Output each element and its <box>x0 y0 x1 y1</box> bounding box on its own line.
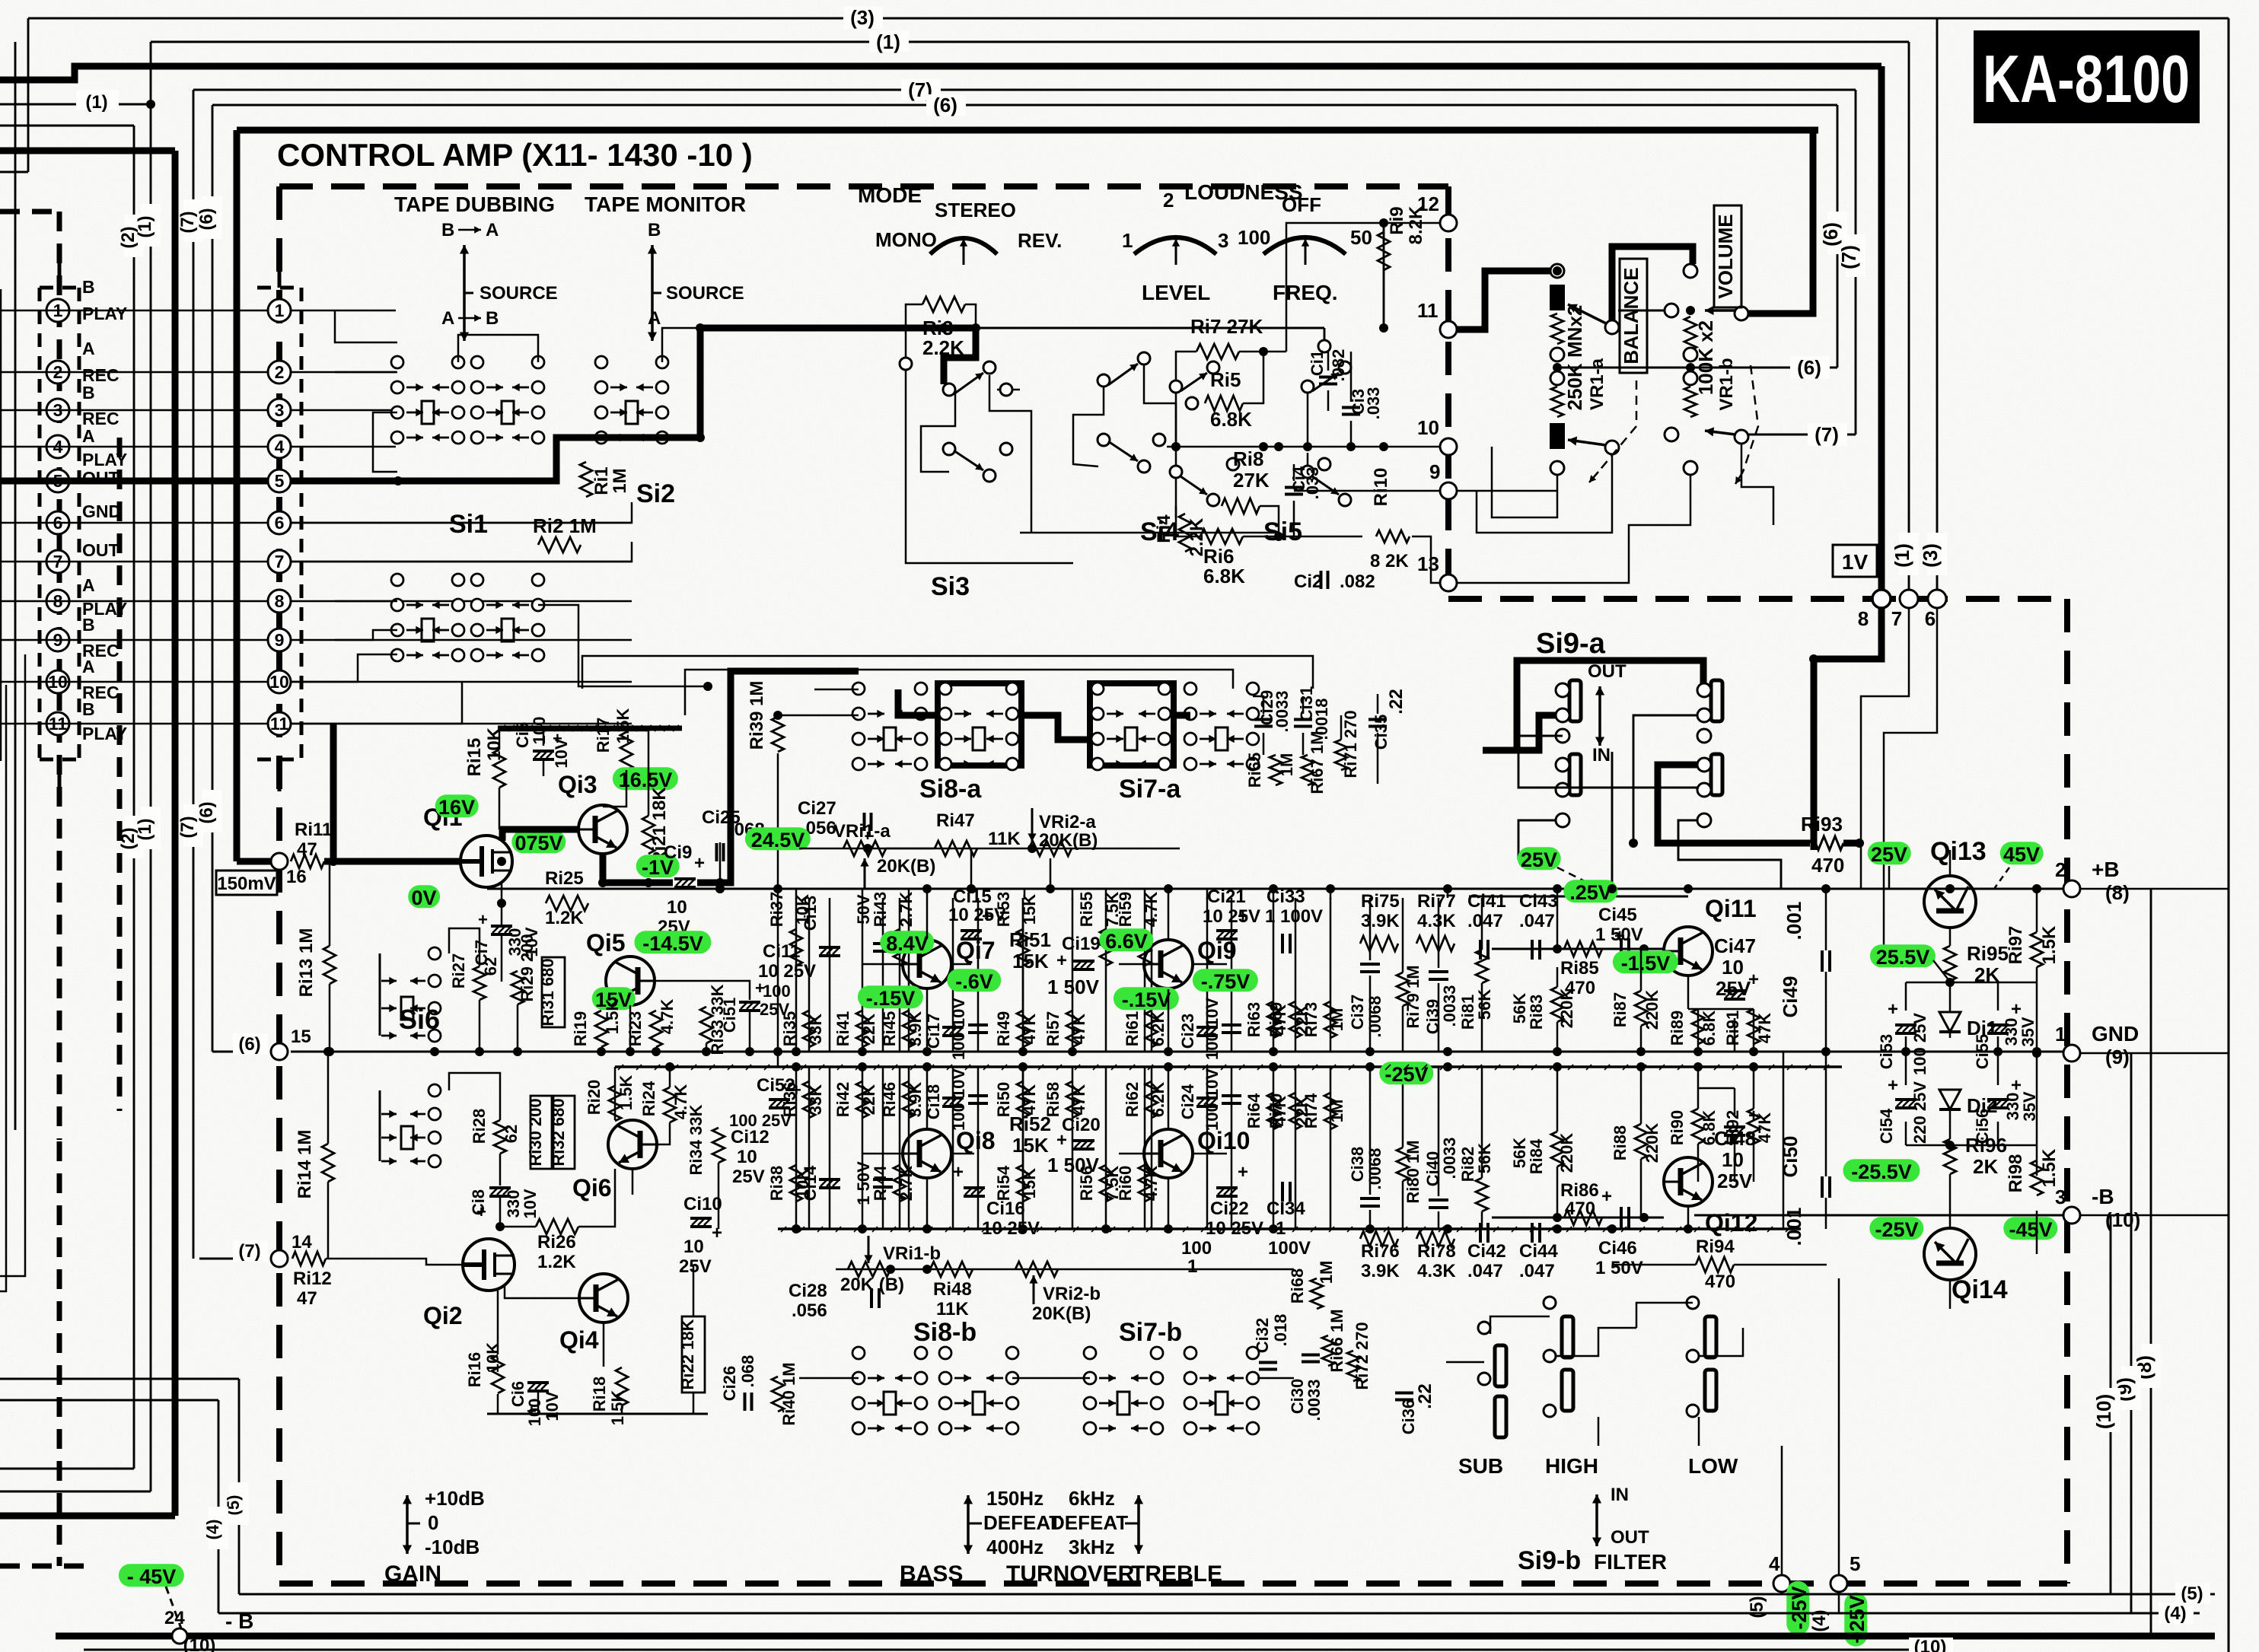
wire row pin9 <box>0 639 268 641</box>
svg-text:+: + <box>712 1223 722 1243</box>
component Ri73 upper <box>1330 898 1332 1052</box>
svg-text:-45V: -45V <box>2009 1218 2052 1241</box>
svg-text:Ri31 680: Ri31 680 <box>538 958 557 1026</box>
wire bus (1) top <box>151 41 1909 43</box>
wire row pin7 <box>0 561 268 563</box>
svg-text:REV.: REV. <box>1018 229 1062 252</box>
dashes bottom left <box>57 1141 62 1566</box>
node 7 dash <box>1900 590 1918 608</box>
svg-text:Ri68: Ri68 <box>1288 1268 1307 1303</box>
resistor Ri67 1M <box>1302 755 1314 785</box>
svg-text:- 45V: - 45V <box>127 1565 177 1588</box>
diode Di1 <box>1939 1012 1961 1032</box>
svg-text:3: 3 <box>2055 1186 2066 1208</box>
transistor Qi9 <box>1144 940 1193 988</box>
svg-text:Ri54: Ri54 <box>994 1165 1013 1201</box>
wire right cluster links <box>1556 889 1559 949</box>
wire +B ext <box>2080 888 2229 890</box>
label (6) lower <box>202 790 222 832</box>
component Ri70 lower <box>1295 1067 1297 1229</box>
connector J2 pin 7 <box>268 550 291 573</box>
svg-text:Qi14: Qi14 <box>1952 1275 2008 1304</box>
wire qi12 base row <box>1492 1217 1664 1219</box>
svg-text:Ri73: Ri73 <box>1302 1002 1321 1037</box>
svg-text:3.9K: 3.9K <box>906 1082 925 1118</box>
svg-text:20K(B): 20K(B) <box>877 856 935 877</box>
svg-text:10: 10 <box>1417 416 1439 439</box>
svg-text:Ri91: Ri91 <box>1723 1011 1742 1046</box>
connector J1 pin 9 <box>46 629 69 651</box>
svg-text:2: 2 <box>2055 858 2066 881</box>
svg-text:+: + <box>1614 926 1625 947</box>
svg-text:B: B <box>441 220 454 240</box>
svg-text:VOLUME: VOLUME <box>1714 214 1737 298</box>
svg-text:Ri46: Ri46 <box>880 1082 899 1117</box>
svg-text:22K: 22K <box>859 1084 878 1115</box>
wire di tops <box>1906 982 2037 984</box>
node 16 <box>271 853 288 870</box>
voltage -1V <box>636 855 680 877</box>
svg-text:VRi1-b: VRi1-b <box>883 1243 941 1264</box>
dashed box mid horiz <box>1448 596 2067 602</box>
resistor Ri15 10K <box>493 750 505 788</box>
svg-text:Ci41: Ci41 <box>1467 891 1506 912</box>
svg-text:Ri29 200: Ri29 200 <box>518 934 537 1001</box>
svg-text:Ri85: Ri85 <box>1560 958 1599 979</box>
svg-text:+B: +B <box>2092 858 2120 881</box>
svg-text:47: 47 <box>297 1288 317 1309</box>
voltage 25.5V <box>1870 944 1936 967</box>
svg-text:OFF: OFF <box>1282 193 1321 216</box>
svg-text:Si5: Si5 <box>1263 517 1302 546</box>
wire si9a thick in <box>1483 715 1558 750</box>
svg-text:+: + <box>1056 1130 1067 1151</box>
voltage -.6V <box>947 969 1001 992</box>
wire bus thick box-left vert <box>234 130 241 861</box>
resistor Ri96 2K <box>1944 1139 1956 1174</box>
svg-text:Ri62: Ri62 <box>1123 1082 1142 1117</box>
svg-text:47K: 47K <box>1069 1014 1088 1044</box>
switch Si5 lower <box>1302 466 1314 478</box>
svg-text:Ri64: Ri64 <box>1244 1093 1263 1128</box>
svg-text:Ri5: Ri5 <box>1210 368 1241 391</box>
wire row pin2 <box>0 371 268 374</box>
svg-text:Ri42: Ri42 <box>833 1082 852 1117</box>
transistor Qi5 <box>606 957 655 1005</box>
wire tone top runs <box>582 656 1313 689</box>
svg-text:OUT: OUT <box>1611 1527 1649 1548</box>
svg-text:Ri41: Ri41 <box>833 1011 852 1046</box>
si9b in out arrows <box>1595 1494 1598 1520</box>
switch Si9-a right contacts <box>1711 680 1722 721</box>
svg-text:.082: .082 <box>1340 571 1375 592</box>
capacitor Ci1 .082 <box>1319 377 1337 384</box>
wire right border <box>2228 18 2230 1652</box>
pot VR1-b volume upper <box>1684 264 1697 278</box>
svg-text:OUT: OUT <box>82 540 119 560</box>
svg-text:12: 12 <box>1417 193 1439 215</box>
resistor Ri33 33K <box>700 1007 712 1043</box>
svg-text:(7): (7) <box>177 816 198 838</box>
wire si7a mesh <box>1253 696 1263 714</box>
svg-text:Ri10: Ri10 <box>1371 468 1391 507</box>
svg-text:15: 15 <box>291 1027 311 1047</box>
voltage -45V botleft <box>119 1564 184 1587</box>
capacitor Ci9 10 25V <box>674 879 696 887</box>
svg-text:10 25V: 10 25V <box>1206 1218 1263 1239</box>
svg-text:Ci51: Ci51 <box>720 998 739 1033</box>
transistor Qi11 <box>1664 927 1713 976</box>
connector J1 pin 8 <box>46 590 69 613</box>
svg-text:.068: .068 <box>738 1355 757 1388</box>
capacitor Ci51 <box>739 1002 760 1011</box>
label 1V box <box>1833 545 1877 577</box>
component Ci14 lower <box>829 1067 831 1229</box>
svg-text:3.9K: 3.9K <box>1361 911 1400 931</box>
component Ri54 lower <box>1022 1067 1024 1229</box>
svg-text:A: A <box>82 339 95 358</box>
wire si9b drop <box>1598 1417 1600 1446</box>
svg-text:10: 10 <box>1722 1148 1744 1171</box>
resistor Ri91 47K <box>1748 1009 1760 1044</box>
capacitor Ci56 330 35V <box>1987 1100 2009 1108</box>
svg-text:Ri19: Ri19 <box>571 1011 590 1046</box>
svg-text:.056: .056 <box>792 1300 827 1321</box>
wire gnd row6 <box>291 502 632 523</box>
svg-text:MONO: MONO <box>875 228 937 251</box>
svg-text:10 25V: 10 25V <box>1203 906 1260 927</box>
svg-text:10: 10 <box>737 1147 757 1167</box>
resistor Ri9 8.2K <box>1383 223 1385 328</box>
wire mid vertical links <box>777 1052 779 1067</box>
wire thick node5 <box>291 438 601 481</box>
wire qi6 wires <box>614 1088 616 1121</box>
svg-text:20K(B): 20K(B) <box>1032 1303 1091 1324</box>
svg-text:Ci55: Ci55 <box>1973 1034 1992 1069</box>
svg-text:+: + <box>527 1402 537 1421</box>
connector J1 pin 3 <box>46 399 69 422</box>
svg-text:VRi2-a: VRi2-a <box>1039 812 1096 832</box>
switch Si5 wiper up <box>1302 380 1314 393</box>
wire row pin8 <box>0 600 268 603</box>
wire row pin10 <box>0 681 268 683</box>
wire ci9 to rail <box>706 882 720 884</box>
resistor Ri98 1.5K <box>2031 1160 2043 1195</box>
svg-text:16V: 16V <box>438 796 475 819</box>
loudness level arc <box>1134 237 1216 254</box>
svg-text:(10): (10) <box>1914 1637 1947 1652</box>
node 24 <box>172 1628 187 1644</box>
svg-text:VR1-b: VR1-b <box>1716 358 1737 410</box>
resistor Ri31 680 <box>542 957 565 1027</box>
svg-text:Ri49: Ri49 <box>994 1011 1013 1046</box>
svg-text:.018: .018 <box>1271 1314 1290 1347</box>
svg-text:-.6V: -.6V <box>955 970 993 993</box>
svg-text:1V: 1V <box>1842 550 1869 574</box>
component Ri37 upper <box>795 898 798 1052</box>
svg-text:Ri43: Ri43 <box>871 892 890 927</box>
svg-text:1: 1 <box>275 301 285 320</box>
pot VRi1-a 20K(B) <box>843 841 886 856</box>
svg-text:SOURCE: SOURCE <box>666 283 744 304</box>
svg-text:4.3K: 4.3K <box>1417 911 1456 931</box>
svg-text:Ri7 27K: Ri7 27K <box>1190 315 1263 338</box>
rail GND mid <box>291 1051 2063 1053</box>
svg-text:(7): (7) <box>1815 423 1839 446</box>
wire qi11 base row <box>1492 948 1664 950</box>
svg-text:25V: 25V <box>760 1000 789 1019</box>
svg-text:Ci12: Ci12 <box>731 1127 769 1147</box>
svg-text:Ri79 1M: Ri79 1M <box>1404 965 1423 1028</box>
label BALANCE box <box>1620 259 1647 373</box>
svg-text:Ri48: Ri48 <box>933 1279 972 1300</box>
voltage 15V <box>592 987 636 1010</box>
svg-text:BASS: BASS <box>900 1561 963 1587</box>
svg-text:Ri86: Ri86 <box>1560 1180 1599 1201</box>
switch Si9-a left contacts <box>1569 680 1581 721</box>
braid ticks rail 1402 <box>618 1065 623 1070</box>
wire ri93 right <box>1843 840 1861 847</box>
svg-text:(8): (8) <box>2105 881 2130 904</box>
svg-text:11K: 11K <box>988 829 1021 849</box>
svg-text:Qi9: Qi9 <box>1197 937 1237 964</box>
wire si2 up <box>662 328 700 362</box>
switch Si1 unit B <box>471 356 483 368</box>
connector J2 pin 3 <box>268 399 291 422</box>
resistor Ri25 1.2K <box>546 896 588 911</box>
component Ri43 upper <box>899 898 901 1052</box>
wire ri94 <box>1614 1264 1696 1266</box>
svg-text:35V: 35V <box>2018 1017 2038 1046</box>
voltage -14.5V <box>634 931 711 953</box>
svg-text:Ci9: Ci9 <box>664 842 692 863</box>
junction dots +B rail <box>715 884 725 893</box>
wire si1 lower net <box>291 542 632 562</box>
switch Si6 upper <box>379 953 381 1036</box>
wire qi3 out thick <box>603 854 673 883</box>
svg-text:Ri61: Ri61 <box>1123 1011 1142 1046</box>
node 15 <box>212 1051 268 1053</box>
switch Si4 lower <box>1170 466 1182 478</box>
resistor Ri6 6.8K <box>1200 529 1243 544</box>
capacitor Ci8 330 10V <box>489 1188 511 1196</box>
svg-text:Ci14: Ci14 <box>801 1165 820 1201</box>
svg-text:4: 4 <box>275 437 285 457</box>
svg-text:1: 1 <box>2055 1023 2066 1046</box>
component Ri74 lower <box>1330 1067 1332 1229</box>
component Ri58 lower <box>1072 1067 1074 1229</box>
svg-text:Si9-a: Si9-a <box>1536 628 1606 660</box>
svg-text:Si9-b: Si9-b <box>1518 1546 1581 1575</box>
svg-text:Ri98: Ri98 <box>2006 1154 2026 1193</box>
svg-text:10 25V: 10 25V <box>982 1218 1040 1239</box>
wire thick si8a path <box>898 689 938 715</box>
wire vr row lower <box>836 1268 1294 1271</box>
wire balance bottom net <box>1492 447 1557 517</box>
voltage 075V <box>511 830 566 853</box>
svg-text:BALANCE: BALANCE <box>1620 267 1642 364</box>
svg-text:47K: 47K <box>1020 1084 1039 1115</box>
svg-text:16: 16 <box>286 867 307 887</box>
wire lower cluster <box>487 1413 708 1415</box>
svg-text:CI34: CI34 <box>1267 1198 1305 1219</box>
dashed box top <box>279 183 1448 189</box>
switch Si3 unit B lower <box>1098 434 1110 446</box>
svg-text:10: 10 <box>269 672 289 692</box>
wire left dashed border 2 <box>117 438 123 1111</box>
svg-text:-.75V: -.75V <box>1201 970 1251 993</box>
switch Si1 unit D <box>471 574 483 586</box>
svg-text:1M: 1M <box>1327 1008 1346 1032</box>
svg-text:7: 7 <box>1891 607 1902 630</box>
svg-text:2.7K: 2.7K <box>897 892 916 928</box>
component Ri69 upper <box>1295 898 1297 1052</box>
voltage -25V qi14 <box>1869 1217 1923 1240</box>
transistor Qi6 <box>608 1120 657 1169</box>
label (2) lower <box>124 816 144 858</box>
wire ri3 <box>906 304 922 358</box>
wire thick source down <box>330 724 337 861</box>
wire qi2-qi4 <box>505 1286 579 1298</box>
svg-text:GND: GND <box>2092 1022 2139 1046</box>
resistor Ri66 1M <box>1322 1335 1334 1366</box>
capacitor Ci4 .033 <box>1285 488 1303 495</box>
svg-text:1.5K: 1.5K <box>608 1390 627 1426</box>
svg-text:250K MNx2: 250K MNx2 <box>1563 305 1586 411</box>
connector J2 dashed box <box>257 286 301 290</box>
svg-text:Ri80 1M: Ri80 1M <box>1404 1140 1423 1203</box>
component Ri63 upper <box>1273 898 1275 1052</box>
svg-text:Ri66 1M: Ri66 1M <box>1327 1309 1346 1372</box>
component Ri56 lower <box>1105 1067 1107 1229</box>
svg-text:Ri89: Ri89 <box>1668 1011 1687 1046</box>
transistor Qi8 <box>903 1129 951 1178</box>
svg-text:33K: 33K <box>806 1084 825 1115</box>
wire si3 mesh2 <box>1073 387 1104 466</box>
component Ri38 lower <box>795 1067 798 1229</box>
svg-text:100: 100 <box>763 982 791 1001</box>
svg-text:6: 6 <box>1925 607 1936 630</box>
svg-text:(3): (3) <box>850 6 875 29</box>
svg-text:(6): (6) <box>933 94 957 116</box>
resistor Ri48 11K <box>930 1262 973 1277</box>
wire left stub (1) <box>0 103 151 106</box>
svg-text:Ri93: Ri93 <box>1801 813 1843 836</box>
wire node7 drop <box>1861 608 1909 889</box>
voltage -45V qi14 <box>2003 1217 2057 1240</box>
rail lower stage <box>778 1227 1801 1230</box>
svg-text:(1): (1) <box>876 30 900 53</box>
svg-text:SOURCE: SOURCE <box>480 283 558 304</box>
svg-text:.047: .047 <box>1467 911 1503 931</box>
wire row pin4 <box>0 446 268 448</box>
svg-text:.0033: .0033 <box>1305 1379 1324 1421</box>
component Ri42 lower <box>862 1067 864 1229</box>
resistor Ri30 200 <box>530 1096 552 1169</box>
svg-text:FILTER: FILTER <box>1594 1550 1667 1574</box>
wire node5 vert <box>1838 1278 1840 1575</box>
svg-text:Ri8: Ri8 <box>1233 447 1263 470</box>
wire ri13/14 <box>329 861 331 946</box>
resistor Ri93 470 <box>1810 836 1843 850</box>
svg-text:1 50V: 1 50V <box>1047 1154 1100 1176</box>
svg-text:Ci21: Ci21 <box>1207 886 1246 907</box>
connector J2 pin 1 <box>268 299 291 322</box>
svg-text:10V: 10V <box>552 738 571 768</box>
resistor Ri11 47 <box>291 855 324 868</box>
connector J1 pin 10 <box>46 670 69 693</box>
svg-text:1 50V: 1 50V <box>1047 976 1100 998</box>
svg-text:(7): (7) <box>1837 245 1860 269</box>
wire node11 thick <box>1457 271 1557 329</box>
svg-text:1.5K: 1.5K <box>617 1075 636 1111</box>
wire right (10) vert <box>2110 1215 2112 1594</box>
svg-text:Ci1: Ci1 <box>1308 350 1327 376</box>
svg-text:10: 10 <box>683 1237 704 1257</box>
svg-text:100: 100 <box>1238 226 1270 249</box>
svg-text:.0068: .0068 <box>1365 1147 1384 1189</box>
wire bottom lowest <box>84 1649 1948 1651</box>
component Ri50 lower <box>1022 1067 1024 1229</box>
wire bottom (4) <box>218 1612 2200 1615</box>
pointer qi13 <box>1888 866 1891 889</box>
resistor Ri72 270 <box>1347 1351 1359 1381</box>
svg-text:Ri55: Ri55 <box>1077 892 1096 927</box>
svg-text:220K: 220K <box>1557 988 1576 1029</box>
switch Si7-b right unit <box>1184 1347 1196 1359</box>
resistor Ri80 1M <box>1397 1147 1409 1181</box>
logo KA-8100 <box>1974 30 2200 123</box>
resistor Ri34 33K <box>712 1128 725 1163</box>
node 9 <box>1440 482 1457 499</box>
svg-text:Ri30 200: Ri30 200 <box>526 1098 545 1166</box>
svg-text:100 10V: 100 10V <box>949 998 968 1060</box>
wire node9 line <box>1457 490 1557 492</box>
svg-text:+: + <box>953 1162 964 1183</box>
svg-text:Ci50: Ci50 <box>1779 1136 1802 1178</box>
svg-text:B: B <box>648 220 661 240</box>
svg-text:TAPE MONITOR: TAPE MONITOR <box>585 193 746 216</box>
node 14 <box>199 1258 268 1260</box>
wire bus (3) top <box>28 18 2134 20</box>
voltage 6.6V <box>1099 928 1153 951</box>
svg-text:A: A <box>82 657 95 676</box>
node -B <box>2063 1207 2080 1224</box>
component Ri44 lower <box>899 1067 901 1229</box>
node 6 dash <box>1928 590 1946 608</box>
connector J1 pin 7 <box>46 550 69 573</box>
svg-text:IN: IN <box>1611 1485 1629 1505</box>
svg-text:2: 2 <box>275 362 285 382</box>
svg-text:25.5V: 25.5V <box>1876 946 1930 969</box>
svg-text:PLAY: PLAY <box>82 724 127 743</box>
connector J1 pin 4 <box>46 435 69 458</box>
wire thick to si8a <box>697 671 859 883</box>
svg-text:1.5K: 1.5K <box>2039 925 2060 964</box>
svg-text:DEFEAT: DEFEAT <box>1050 1511 1128 1534</box>
svg-text:(7): (7) <box>238 1241 260 1262</box>
svg-text:1M: 1M <box>1317 1261 1336 1284</box>
switch Si1 unit A <box>391 356 403 368</box>
wire right (9) vert <box>2130 1053 2133 1613</box>
svg-text:B: B <box>82 615 95 635</box>
svg-text:1: 1 <box>1122 229 1133 252</box>
dashed box left <box>276 186 282 1584</box>
svg-text:Ri40 1M: Ri40 1M <box>779 1362 798 1425</box>
component Ri64 lower <box>1273 1067 1275 1229</box>
svg-text:9: 9 <box>1429 460 1440 483</box>
mode knob arc <box>930 238 997 254</box>
